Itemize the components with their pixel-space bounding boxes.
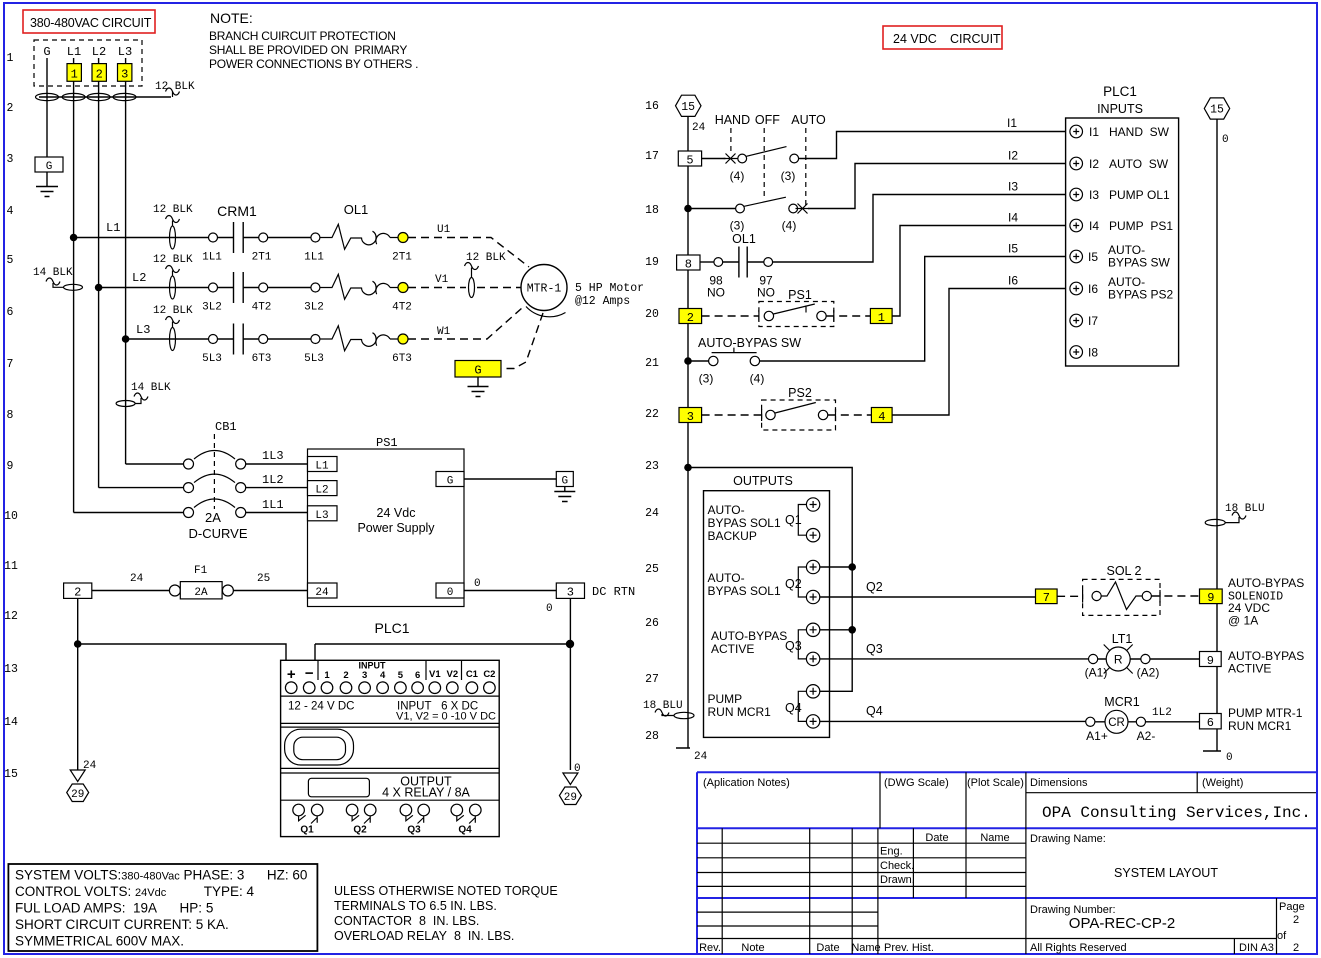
svg-text:OVERLOAD RELAY 8 IN. LBS.: OVERLOAD RELAY 8 IN. LBS. [334,929,514,943]
svg-text:SHALL BE PROVIDED ON PRIMARY: SHALL BE PROVIDED ON PRIMARY [209,43,407,57]
svg-text:SYSTEM LAYOUT: SYSTEM LAYOUT [1114,866,1218,880]
svg-text:Rev.: Rev. [699,942,721,954]
svg-text:V1, V2 = 0 -10 V DC: V1, V2 = 0 -10 V DC [396,711,496,723]
svg-text:6T3: 6T3 [392,353,412,365]
svg-text:1L2: 1L2 [1152,707,1172,719]
svg-text:23: 23 [645,460,659,473]
svg-text:7: 7 [1043,591,1050,605]
svg-text:9: 9 [1207,654,1214,668]
svg-text:Q3: Q3 [407,825,421,836]
svg-text:(DWG Scale): (DWG Scale) [884,777,949,789]
svg-text:Q2: Q2 [353,825,367,836]
svg-text:Q3: Q3 [866,642,883,656]
svg-text:17: 17 [645,150,659,163]
svg-text:CONTROL VOLTS: 24Vdc: CONTROL VOLTS: 24Vdc TYPE: 4 [15,884,255,899]
svg-text:24: 24 [130,573,144,585]
svg-text:2T1: 2T1 [392,252,412,264]
svg-text:26: 26 [645,617,659,630]
svg-text:L3: L3 [118,45,132,59]
svg-text:1: 1 [71,68,78,82]
svg-text:DIN A3: DIN A3 [1239,942,1274,954]
svg-text:OL1: OL1 [344,202,369,217]
svg-text:R: R [1114,653,1123,667]
svg-text:(3): (3) [730,219,745,233]
svg-text:HAND: HAND [715,113,750,127]
svg-text:AUTO-BYPAS: AUTO-BYPAS [1228,576,1304,590]
svg-text:L2: L2 [132,271,146,285]
svg-text:(3): (3) [699,372,714,386]
svg-text:6T3: 6T3 [252,353,272,365]
svg-text:NOTE:: NOTE: [210,10,253,26]
svg-text:14 BLK: 14 BLK [33,267,73,279]
svg-text:BYPAS SW: BYPAS SW [1108,256,1170,270]
svg-text:Date: Date [816,942,839,954]
svg-text:All Rights Reserved: All Rights Reserved [1030,942,1127,954]
svg-text:CB1: CB1 [215,420,237,434]
svg-text:PLC1: PLC1 [1103,84,1137,99]
svg-text:BYPAS PS2: BYPAS PS2 [1108,288,1173,302]
svg-text:AUTO-BYPAS SW: AUTO-BYPAS SW [698,336,801,350]
svg-text:FUL LOAD AMPS: 19A HP: 5: FUL LOAD AMPS: 19A HP: 5 [15,901,213,916]
svg-text:2: 2 [343,670,348,681]
svg-text:MTR-1: MTR-1 [527,283,562,296]
svg-text:12 - 24 V DC: 12 - 24 V DC [288,701,354,713]
svg-text:I3: I3 [1008,180,1018,194]
svg-text:PS1: PS1 [788,288,812,302]
svg-text:F1: F1 [194,565,208,577]
svg-text:I5: I5 [1008,242,1018,256]
svg-text:15: 15 [681,101,695,114]
svg-text:G: G [43,45,50,59]
svg-text:(4): (4) [750,372,765,386]
svg-text:2: 2 [1293,942,1299,954]
svg-text:5: 5 [398,670,404,681]
svg-text:ULESS OTHERWISE NOTED TORQUE: ULESS OTHERWISE NOTED TORQUE [334,884,558,898]
svg-text:5: 5 [686,153,693,167]
svg-text:I3 PUMP OL1: I3 PUMP OL1 [1089,188,1170,202]
svg-text:0: 0 [546,603,553,615]
svg-text:12 BLK: 12 BLK [466,252,506,264]
svg-text:V2: V2 [446,669,458,680]
svg-text:12: 12 [4,610,18,623]
svg-text:8: 8 [685,257,692,271]
svg-text:18 BLU: 18 BLU [643,700,683,712]
svg-text:Note: Note [741,942,764,954]
svg-text:16: 16 [645,100,659,113]
svg-text:0: 0 [447,587,454,599]
svg-text:MCR1: MCR1 [1104,695,1139,709]
svg-text:OPA Consulting Services,Inc.: OPA Consulting Services,Inc. [1042,804,1311,822]
svg-text:Drawing Name:: Drawing Name: [1030,833,1106,845]
svg-text:A2-: A2- [1137,729,1156,743]
svg-text:(Aplication Notes): (Aplication Notes) [703,777,790,789]
svg-text:NO: NO [757,286,775,300]
svg-text:I7: I7 [1088,314,1098,328]
svg-text:25: 25 [645,563,659,576]
svg-text:24: 24 [645,507,659,520]
svg-text:380-480VAC CIRCUIT: 380-480VAC CIRCUIT [30,16,152,30]
svg-text:2: 2 [96,68,103,82]
svg-text:3: 3 [567,585,574,599]
svg-text:OUTPUTS: OUTPUTS [733,474,793,488]
svg-text:Prev. Hist.: Prev. Hist. [884,942,934,954]
svg-text:CRM1: CRM1 [217,203,257,219]
svg-text:OPA-REC-CP-2: OPA-REC-CP-2 [1069,915,1175,932]
svg-text:2: 2 [687,311,694,325]
svg-text:0: 0 [1226,752,1233,764]
svg-text:2: 2 [74,585,81,599]
svg-text:1L2: 1L2 [262,473,284,487]
svg-text:3: 3 [362,670,367,681]
svg-text:Q2: Q2 [866,580,883,594]
svg-text:3L2: 3L2 [202,302,222,314]
svg-text:L3: L3 [315,510,328,522]
svg-text:29: 29 [71,789,84,801]
svg-text:29: 29 [564,792,577,804]
svg-text:(4): (4) [782,219,797,233]
svg-text:PUMP MTR-1: PUMP MTR-1 [1228,706,1303,720]
svg-text:G: G [447,476,454,488]
svg-text:13: 13 [4,663,18,676]
svg-text:0: 0 [474,578,481,590]
svg-text:Q3: Q3 [785,639,802,653]
svg-text:I6: I6 [1008,274,1018,288]
svg-text:1L1: 1L1 [304,252,324,264]
svg-text:24: 24 [315,587,329,599]
svg-text:I4: I4 [1008,211,1018,225]
svg-text:SOL 2: SOL 2 [1107,564,1142,578]
svg-text:@ 1A: @ 1A [1228,614,1258,628]
svg-text:(Weight): (Weight) [1202,777,1243,789]
svg-text:SYMMETRICAL 600V MAX.: SYMMETRICAL 600V MAX. [15,934,184,949]
svg-text:V1: V1 [435,274,449,286]
svg-text:L1: L1 [315,461,329,473]
svg-text:ACTIVE: ACTIVE [1228,662,1271,676]
svg-text:W1: W1 [437,326,451,338]
svg-text:AUTO-BYPAS: AUTO-BYPAS [711,629,787,643]
svg-text:OFF: OFF [755,113,780,127]
svg-text:19: 19 [645,256,659,269]
svg-text:1L3: 1L3 [262,449,284,463]
svg-text:14: 14 [4,716,18,729]
svg-text:BACKUP: BACKUP [708,529,757,543]
svg-text:C2: C2 [483,669,495,680]
svg-text:Drawn.: Drawn. [880,874,915,886]
svg-text:5L3: 5L3 [202,353,222,365]
svg-text:I8: I8 [1088,346,1098,360]
svg-text:TERMINALS TO 6.5 IN. LBS.: TERMINALS TO 6.5 IN. LBS. [334,899,497,913]
svg-text:+: + [287,666,296,683]
svg-text:Q4: Q4 [785,701,802,715]
svg-text:2A: 2A [205,510,221,525]
svg-text:SYSTEM VOLTS:380-480Vac PHASE:: SYSTEM VOLTS:380-480Vac PHASE: 3 HZ: 60 [15,868,307,883]
svg-text:RUN MCR1: RUN MCR1 [1228,719,1292,733]
svg-text:Date: Date [925,832,948,844]
svg-text:PS2: PS2 [788,386,812,400]
svg-text:CR: CR [1108,717,1125,729]
svg-text:2A: 2A [194,587,208,599]
svg-text:25: 25 [257,573,270,585]
svg-text:24 VDC: 24 VDC [893,32,937,46]
svg-text:1: 1 [324,670,330,681]
svg-text:(3): (3) [781,169,796,183]
svg-text:CONTACTOR 8 IN. LBS.: CONTACTOR 8 IN. LBS. [334,914,479,928]
svg-text:G: G [46,161,53,173]
svg-text:DC RTN: DC RTN [592,585,635,599]
svg-text:Q2: Q2 [785,577,802,591]
svg-text:4T2: 4T2 [252,302,272,314]
svg-text:3: 3 [7,153,14,166]
svg-text:Q1: Q1 [785,513,802,527]
svg-text:I1: I1 [1007,116,1017,130]
svg-text:SHORT CIRCUIT CURRENT: 5 KA.: SHORT CIRCUIT CURRENT: 5 KA. [15,917,229,932]
svg-text:POWER CONNECTIONS BY OTHERS .: POWER CONNECTIONS BY OTHERS . [209,57,418,71]
svg-text:I6: I6 [1088,282,1098,296]
svg-text:4T2: 4T2 [392,302,412,314]
svg-text:A1+: A1+ [1086,729,1108,743]
svg-text:18: 18 [645,204,659,217]
svg-text:PLC1: PLC1 [374,620,409,636]
svg-text:Q4: Q4 [458,825,472,836]
svg-text:Page: Page [1279,901,1305,913]
svg-text:2T1: 2T1 [252,252,272,264]
svg-text:L3: L3 [136,323,150,337]
svg-text:9: 9 [1207,591,1214,605]
svg-text:6: 6 [7,306,14,319]
svg-text:5 HP Motor: 5 HP Motor [575,282,644,295]
svg-text:12 BLK: 12 BLK [153,305,193,317]
svg-text:I2 AUTO SW: I2 AUTO SW [1089,157,1169,171]
svg-text:Q4: Q4 [866,704,883,718]
svg-text:Eng.: Eng. [880,846,903,858]
svg-text:L1: L1 [67,45,81,59]
svg-text:3: 3 [121,68,128,82]
svg-text:L2: L2 [92,45,106,59]
svg-text:7: 7 [7,358,14,371]
svg-text:BYPAS SOL1: BYPAS SOL1 [708,516,781,530]
svg-text:9: 9 [7,460,14,473]
svg-text:RUN MCR1: RUN MCR1 [708,705,772,719]
svg-text:L2: L2 [315,485,328,497]
svg-text:12 BLK: 12 BLK [153,254,193,266]
svg-text:4: 4 [878,410,885,424]
svg-text:INPUTS: INPUTS [1097,102,1143,116]
svg-text:G: G [474,364,481,378]
svg-text:@12 Amps: @12 Amps [575,295,630,308]
svg-text:PS1: PS1 [376,436,398,450]
svg-text:C1: C1 [466,669,479,680]
svg-text:(A2): (A2) [1137,666,1160,680]
svg-text:I5: I5 [1088,250,1098,264]
svg-text:ACTIVE: ACTIVE [711,642,754,656]
svg-text:21: 21 [645,357,659,370]
svg-text:24: 24 [692,122,706,134]
svg-text:Dimensions: Dimensions [1030,777,1088,789]
svg-text:2: 2 [1293,914,1299,926]
svg-text:NO: NO [707,286,725,300]
svg-text:CIRCUIT: CIRCUIT [950,32,1001,46]
svg-text:15: 15 [1210,104,1224,117]
svg-text:6: 6 [415,670,420,681]
svg-text:27: 27 [645,673,659,686]
svg-text:of: of [1277,930,1287,942]
svg-text:I1 HAND SW: I1 HAND SW [1089,125,1170,139]
svg-text:(A1): (A1) [1085,666,1108,680]
svg-text:3: 3 [687,410,694,424]
svg-text:2: 2 [7,102,14,115]
svg-text:PUMP: PUMP [708,692,743,706]
svg-text:Check.: Check. [880,860,914,872]
svg-text:24: 24 [694,751,708,763]
svg-text:(Plot Scale): (Plot Scale) [967,777,1024,789]
svg-text:G: G [561,476,568,488]
svg-text:5L3: 5L3 [304,353,324,365]
svg-text:6: 6 [1207,716,1214,730]
svg-text:BYPAS SOL1: BYPAS SOL1 [708,584,781,598]
svg-text:Q1: Q1 [300,825,314,836]
svg-text:15: 15 [4,768,18,781]
svg-text:12 BLK: 12 BLK [155,81,195,93]
svg-text:Power Supply: Power Supply [357,521,435,535]
svg-text:12 BLK: 12 BLK [153,204,193,216]
svg-text:Name: Name [980,832,1009,844]
svg-text:I2: I2 [1008,149,1018,163]
svg-text:20: 20 [645,308,659,321]
svg-text:1L1: 1L1 [202,252,222,264]
svg-text:14 BLK: 14 BLK [131,382,171,394]
svg-text:1: 1 [7,52,14,65]
svg-text:4 X RELAY / 8A: 4 X RELAY / 8A [382,786,470,800]
svg-text:1L1: 1L1 [262,498,284,512]
svg-text:OL1: OL1 [732,232,756,246]
svg-text:18 BLU: 18 BLU [1225,503,1265,515]
svg-text:3L2: 3L2 [304,302,324,314]
svg-text:AUTO-: AUTO- [708,571,745,585]
svg-text:4: 4 [7,205,14,218]
svg-text:1: 1 [878,311,885,325]
svg-text:0: 0 [1222,134,1229,146]
svg-text:4: 4 [380,670,386,681]
svg-text:U1: U1 [437,224,451,236]
svg-text:Name: Name [851,942,880,954]
svg-text:(4): (4) [730,169,745,183]
svg-text:11: 11 [4,560,18,573]
svg-text:V1: V1 [429,669,441,680]
svg-text:24 Vdc: 24 Vdc [377,506,416,520]
svg-text:I4 PUMP PS1: I4 PUMP PS1 [1089,219,1173,233]
svg-text:22: 22 [645,408,659,421]
svg-text:BRANCH CUIRCUIT PROTECTION: BRANCH CUIRCUIT PROTECTION [209,29,396,43]
svg-text:INPUT: INPUT [359,661,387,671]
svg-text:L1: L1 [106,221,120,235]
svg-text:5: 5 [7,254,14,267]
svg-text:10: 10 [4,510,18,523]
svg-text:D-CURVE: D-CURVE [189,526,248,541]
svg-text:−: − [305,665,314,682]
svg-text:AUTO-: AUTO- [708,503,745,517]
svg-text:AUTO: AUTO [791,113,826,127]
svg-text:28: 28 [645,730,659,743]
svg-text:8: 8 [7,409,14,422]
svg-text:LT1: LT1 [1112,632,1133,646]
